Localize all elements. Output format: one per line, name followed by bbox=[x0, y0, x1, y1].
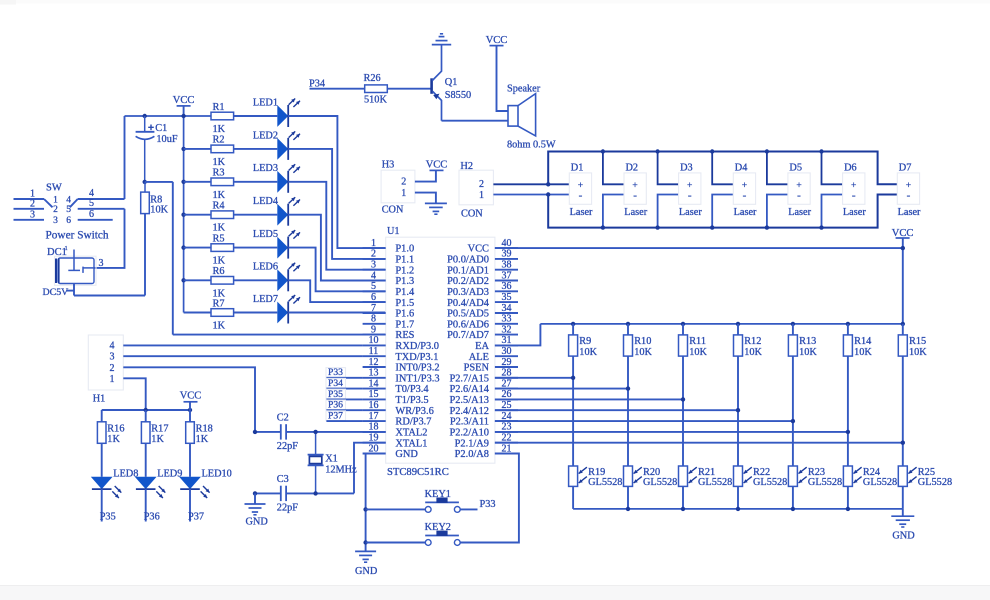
speaker LS1 bbox=[507, 83, 556, 150]
net label P35 bbox=[326, 389, 363, 400]
svg-text:6: 6 bbox=[66, 216, 71, 226]
photoresistor R20 GL5528 bbox=[624, 466, 678, 488]
wire R21 to bottom rail bbox=[682, 486, 684, 509]
svg-text:INT0/P3.2: INT0/P3.2 bbox=[395, 363, 439, 374]
wire D3 minus drop bbox=[658, 195, 679, 228]
svg-text:2: 2 bbox=[30, 199, 35, 210]
wire U1 VCC pin40 bbox=[495, 247, 903, 249]
svg-text:10uF: 10uF bbox=[156, 134, 177, 145]
wire R25 to bottom rail bbox=[902, 486, 904, 509]
junction bbox=[765, 225, 769, 229]
svg-text:D2: D2 bbox=[626, 162, 639, 173]
junction bbox=[253, 430, 257, 434]
wire U1 pin22 tap bbox=[495, 442, 903, 444]
svg-text:R5: R5 bbox=[213, 233, 225, 244]
svg-text:14: 14 bbox=[369, 378, 379, 389]
svg-text:R12: R12 bbox=[744, 336, 761, 347]
U1 pin 36 P0.3/AD3 bbox=[447, 281, 518, 298]
svg-text:R26: R26 bbox=[364, 73, 381, 84]
wire KEY2 to U1 P2.0 bbox=[460, 454, 519, 543]
wire D3 plus drop bbox=[658, 152, 679, 185]
svg-text:P34: P34 bbox=[328, 378, 343, 389]
wire D2 plus drop bbox=[603, 152, 624, 185]
junction bbox=[363, 507, 367, 511]
svg-text:-: - bbox=[797, 189, 801, 201]
resistor R11 10K bbox=[679, 324, 708, 358]
wire VCC vertical rail bbox=[183, 116, 185, 313]
svg-text:33: 33 bbox=[502, 314, 512, 325]
U1 pin 14 T0/P3.4 bbox=[363, 378, 430, 395]
svg-text:1: 1 bbox=[65, 245, 68, 252]
svg-text:XTAL1: XTAL1 bbox=[395, 438, 427, 449]
svg-text:2: 2 bbox=[479, 179, 484, 190]
wire D4 plus drop bbox=[712, 152, 733, 185]
svg-text:GND: GND bbox=[355, 566, 378, 577]
junction bbox=[188, 408, 192, 412]
junction RES node bbox=[143, 180, 147, 184]
svg-text:R11: R11 bbox=[689, 336, 706, 347]
junction bbox=[181, 147, 185, 151]
microcontroller U1 STC89C51RC bbox=[386, 226, 495, 478]
wire LED1 to U1 pin1 bbox=[288, 116, 386, 248]
svg-text:-: - bbox=[852, 189, 856, 201]
svg-text:INT1/P3.3: INT1/P3.3 bbox=[395, 373, 439, 384]
LED LED2 bbox=[234, 130, 300, 160]
svg-text:R9: R9 bbox=[579, 336, 591, 347]
svg-text:LED2: LED2 bbox=[253, 130, 278, 141]
wire D5 minus drop bbox=[767, 195, 788, 228]
LED LED3 bbox=[234, 163, 300, 193]
resistor R7 1K bbox=[184, 298, 234, 331]
wire Q1 emitter to speaker bbox=[442, 120, 509, 122]
junction bbox=[901, 322, 905, 326]
svg-text:32: 32 bbox=[502, 324, 512, 335]
svg-text:10K: 10K bbox=[579, 347, 597, 358]
svg-text:EA: EA bbox=[475, 341, 489, 352]
svg-text:3: 3 bbox=[371, 260, 376, 271]
svg-text:2: 2 bbox=[401, 177, 406, 188]
resistor R16 1K bbox=[97, 410, 124, 445]
resistor R26 510K bbox=[364, 73, 388, 106]
U1 pin 1 P1.0 bbox=[363, 238, 415, 255]
svg-text:LED5: LED5 bbox=[253, 229, 278, 240]
U1 pin 7 P1.6 bbox=[363, 303, 415, 320]
svg-text:1: 1 bbox=[401, 188, 406, 199]
switch SW bbox=[14, 183, 125, 227]
svg-text:P1.3: P1.3 bbox=[395, 276, 414, 287]
svg-text:1K: 1K bbox=[213, 256, 226, 267]
svg-text:R2: R2 bbox=[213, 135, 225, 146]
svg-text:VCC: VCC bbox=[486, 35, 508, 46]
wire photoresistor bottom rail bbox=[573, 508, 903, 510]
svg-text:7: 7 bbox=[371, 303, 376, 314]
svg-text:R1: R1 bbox=[213, 102, 225, 113]
svg-text:P0.0/AD0: P0.0/AD0 bbox=[447, 255, 489, 266]
wire R20 to bottom rail bbox=[627, 486, 629, 509]
U1 pin 21 P2.0/A8 bbox=[455, 443, 518, 460]
power port VCC at R18 bbox=[180, 391, 202, 410]
wire KEY2 left bbox=[366, 542, 426, 544]
svg-text:9: 9 bbox=[371, 324, 376, 335]
wire LED2 to U1 pin2 bbox=[288, 149, 386, 259]
svg-text:D6: D6 bbox=[844, 162, 857, 173]
resistor R2 1K bbox=[184, 135, 234, 168]
U1 pin 8 P1.7 bbox=[363, 314, 415, 331]
svg-text:8ohm 0.5W: 8ohm 0.5W bbox=[507, 140, 556, 151]
junction bbox=[819, 225, 823, 229]
svg-text:R13: R13 bbox=[799, 336, 816, 347]
svg-text:3: 3 bbox=[30, 210, 35, 221]
svg-text:GL5528: GL5528 bbox=[588, 477, 622, 488]
wire R19 to bottom rail bbox=[572, 486, 574, 509]
wire LED5 to U1 pin5 bbox=[288, 248, 386, 292]
LED LED4 bbox=[234, 196, 300, 226]
svg-text:10K: 10K bbox=[634, 347, 652, 358]
wire row1 VCC feed bbox=[125, 115, 212, 117]
junction bbox=[681, 322, 685, 326]
U1 pin 9 RES bbox=[363, 324, 415, 341]
svg-text:P37: P37 bbox=[188, 512, 204, 523]
svg-text:4: 4 bbox=[66, 195, 71, 205]
U1 pin 39 P0.0/AD0 bbox=[447, 249, 518, 266]
junction bbox=[791, 419, 795, 423]
svg-text:37: 37 bbox=[502, 270, 512, 281]
svg-text:Laser: Laser bbox=[679, 207, 702, 218]
svg-text:XTAL2: XTAL2 bbox=[395, 428, 427, 439]
junction bbox=[846, 430, 850, 434]
svg-text:GL5528: GL5528 bbox=[753, 477, 787, 488]
svg-text:10K: 10K bbox=[689, 347, 707, 358]
wire EA to pullup rail bbox=[495, 324, 541, 346]
svg-text:C3: C3 bbox=[277, 474, 289, 485]
svg-text:TXD/P3.1: TXD/P3.1 bbox=[395, 352, 438, 363]
wire LED6 to U1 pin6 bbox=[288, 280, 386, 302]
svg-text:H1: H1 bbox=[93, 394, 106, 405]
pushbutton KEY1 bbox=[425, 489, 461, 512]
photoresistor R25 GL5528 bbox=[898, 466, 952, 488]
resistor R13 10K bbox=[788, 324, 817, 358]
svg-text:RD/P3.7: RD/P3.7 bbox=[395, 417, 431, 428]
wire U1 GND pin to ground bbox=[365, 454, 367, 552]
connector DC1 bbox=[47, 245, 104, 285]
LED LED9 bbox=[135, 443, 183, 498]
laser module D3 bbox=[679, 162, 703, 218]
junction bbox=[846, 507, 850, 511]
ground at crystal bbox=[245, 493, 269, 527]
ground above Q1 bbox=[432, 34, 451, 63]
svg-text:T0/P3.4: T0/P3.4 bbox=[395, 384, 429, 395]
U1 pin 17 RD/P3.7 bbox=[363, 411, 432, 428]
wire U1 pin26 tap bbox=[495, 398, 683, 400]
U1 pin 3 P1.2 bbox=[363, 260, 415, 277]
svg-text:39: 39 bbox=[502, 249, 512, 260]
junction bbox=[313, 430, 317, 434]
svg-text:P2.4/A12: P2.4/A12 bbox=[449, 406, 489, 417]
svg-text:29: 29 bbox=[502, 357, 512, 368]
svg-text:D4: D4 bbox=[735, 162, 748, 173]
svg-text:P0.3/AD3: P0.3/AD3 bbox=[447, 287, 489, 298]
resistor R6 1K bbox=[184, 266, 234, 299]
U1 pin 27 P2.6/A14 bbox=[449, 378, 518, 395]
wire SW pin4 to VCC row bbox=[124, 116, 126, 199]
wire D6 minus drop bbox=[822, 195, 843, 228]
svg-text:15: 15 bbox=[369, 389, 379, 400]
junction bbox=[901, 441, 905, 445]
svg-text:VCC: VCC bbox=[426, 159, 448, 170]
svg-text:Laser: Laser bbox=[788, 207, 811, 218]
svg-text:P36: P36 bbox=[328, 400, 343, 411]
svg-text:R15: R15 bbox=[909, 336, 926, 347]
capacitor C1 10uF bbox=[136, 116, 178, 182]
net label P37 bbox=[326, 411, 363, 422]
svg-text:16: 16 bbox=[369, 400, 379, 411]
junction bbox=[710, 225, 714, 229]
junction bbox=[571, 376, 575, 380]
svg-text:P1.1: P1.1 bbox=[395, 255, 414, 266]
svg-text:Speaker: Speaker bbox=[507, 83, 541, 94]
svg-text:GL5528: GL5528 bbox=[863, 477, 897, 488]
wire H3 pin1 to ground bbox=[415, 193, 436, 203]
U1 pin 33 P0.6/AD6 bbox=[447, 314, 518, 331]
svg-text:LED8: LED8 bbox=[113, 468, 138, 479]
LED LED7 bbox=[234, 294, 300, 324]
svg-text:8: 8 bbox=[371, 314, 376, 325]
svg-text:DC5V: DC5V bbox=[43, 287, 70, 298]
U1 pin 11 TXD/P3.1 bbox=[363, 346, 439, 363]
svg-text:12MHz: 12MHz bbox=[325, 465, 357, 476]
wire R12 to R22 bbox=[737, 356, 739, 466]
svg-text:6: 6 bbox=[371, 292, 376, 303]
U1 pin 26 P2.5/A13 bbox=[449, 389, 518, 406]
wire DC1 minus to R8 bottom bbox=[67, 214, 146, 296]
wire R22 to bottom rail bbox=[737, 486, 739, 509]
net label P36 bbox=[144, 489, 160, 522]
net label P37 bbox=[188, 489, 204, 522]
U1 pin 34 P0.5/AD5 bbox=[447, 303, 518, 320]
svg-text:-: - bbox=[579, 189, 583, 201]
LED LED5 bbox=[234, 229, 300, 259]
wire D2 minus drop bbox=[603, 195, 624, 228]
wire H2 pin2 to laser plus bbox=[493, 183, 569, 185]
wire H1 pin3 to U1 TXD bbox=[123, 355, 362, 357]
svg-text:ALE: ALE bbox=[469, 352, 489, 363]
svg-text:LED6: LED6 bbox=[253, 262, 278, 273]
U1 pin 31 EA bbox=[475, 335, 518, 352]
wire RES node to U1 pin9 bbox=[145, 182, 386, 335]
junction laser plus bbox=[546, 182, 550, 186]
svg-text:R14: R14 bbox=[854, 336, 871, 347]
svg-text:35: 35 bbox=[502, 292, 512, 303]
wire laser top rail bbox=[548, 152, 897, 185]
svg-text:5: 5 bbox=[89, 198, 94, 209]
U1 pin 16 WR/P3.6 bbox=[363, 400, 434, 417]
wire H1 pin1 to LED rail bbox=[123, 378, 145, 410]
wire KEY1 left bbox=[366, 508, 426, 510]
junction bbox=[710, 149, 714, 153]
svg-text:P37: P37 bbox=[328, 411, 343, 422]
laser module D7 bbox=[897, 162, 921, 218]
U1 pin 35 P0.4/AD4 bbox=[447, 292, 518, 309]
junction bbox=[655, 149, 659, 153]
svg-text:P35: P35 bbox=[100, 512, 116, 523]
ground at H3 bbox=[425, 202, 447, 204]
crystal X1 12MHz bbox=[308, 432, 357, 494]
svg-text:T1/P3.5: T1/P3.5 bbox=[395, 395, 428, 406]
wire LED7 to U1 pin7 bbox=[288, 312, 386, 314]
svg-text:SW: SW bbox=[46, 183, 62, 194]
svg-text:4: 4 bbox=[371, 270, 376, 281]
svg-text:P2.6/A14: P2.6/A14 bbox=[449, 384, 489, 395]
svg-text:R7: R7 bbox=[213, 298, 225, 309]
U1 pin 28 P2.7/A15 bbox=[449, 368, 518, 385]
wire D5 plus drop bbox=[767, 152, 788, 185]
svg-text:VCC: VCC bbox=[468, 244, 489, 255]
wire LED3 to U1 pin3 bbox=[288, 182, 386, 270]
svg-text:P1.2: P1.2 bbox=[395, 265, 414, 276]
photoresistor R22 GL5528 bbox=[734, 466, 788, 488]
wire R24 to bottom rail bbox=[847, 486, 849, 509]
svg-text:Laser: Laser bbox=[624, 207, 647, 218]
junction bbox=[181, 278, 185, 282]
connector H2 bbox=[459, 161, 493, 220]
U1 pin 10 RXD/P3.0 bbox=[363, 335, 439, 352]
svg-text:-: - bbox=[633, 189, 637, 201]
resistor R9 10K bbox=[569, 324, 598, 358]
junction bbox=[601, 149, 605, 153]
laser module D6 bbox=[843, 162, 867, 218]
resistor R14 10K bbox=[843, 324, 872, 358]
wire P34 to R26 bbox=[310, 88, 365, 90]
U1 pin 30 ALE bbox=[469, 346, 518, 363]
wire H1 pin4 to U1 RXD bbox=[123, 344, 362, 346]
svg-text:1: 1 bbox=[371, 238, 376, 249]
junction bbox=[681, 397, 685, 401]
U1 pin 18 XTAL2 bbox=[363, 422, 428, 439]
svg-text:D1: D1 bbox=[571, 162, 584, 173]
net label P33 bbox=[326, 367, 363, 378]
wire H2 pin1 to laser minus bbox=[493, 194, 569, 196]
svg-text:P1.6: P1.6 bbox=[395, 309, 414, 320]
wire U1 pin25 tap bbox=[495, 409, 738, 411]
junction bbox=[626, 322, 630, 326]
junction bbox=[791, 322, 795, 326]
U1 pin 15 T1/P3.5 bbox=[363, 389, 429, 406]
wire H3 pin2 to VCC bbox=[415, 171, 436, 182]
ground below keys bbox=[355, 551, 378, 577]
svg-text:10K: 10K bbox=[150, 204, 168, 215]
svg-text:P2.1/A9: P2.1/A9 bbox=[455, 438, 489, 449]
svg-text:CON: CON bbox=[382, 204, 404, 215]
svg-text:1K: 1K bbox=[213, 124, 226, 135]
svg-text:38: 38 bbox=[502, 260, 512, 271]
LED LED1 bbox=[234, 97, 300, 127]
svg-text:Laser: Laser bbox=[898, 207, 921, 218]
wire D4 minus drop bbox=[712, 195, 733, 228]
svg-text:34: 34 bbox=[502, 303, 512, 314]
svg-text:LED3: LED3 bbox=[253, 163, 278, 174]
svg-text:3: 3 bbox=[99, 258, 104, 269]
svg-text:GND: GND bbox=[892, 531, 915, 542]
svg-text:1K: 1K bbox=[107, 434, 120, 445]
svg-text:1: 1 bbox=[53, 195, 58, 205]
svg-text:17: 17 bbox=[369, 411, 379, 422]
net label P35 bbox=[100, 489, 116, 522]
wire SW pin5 to DC1 pin3 bbox=[94, 209, 125, 268]
svg-text:STC89C51RC: STC89C51RC bbox=[387, 467, 449, 478]
svg-text:LED9: LED9 bbox=[157, 468, 182, 479]
svg-text:5: 5 bbox=[371, 281, 376, 292]
wire U1 pin28 tap bbox=[495, 377, 573, 379]
svg-text:CON: CON bbox=[461, 209, 483, 220]
wire R15 to R25 bbox=[902, 356, 904, 466]
wire pullup rail bbox=[540, 323, 902, 325]
svg-text:22pF: 22pF bbox=[277, 503, 298, 514]
resistor R18 1K bbox=[186, 410, 213, 445]
U1 pin 24 P2.3/A11 bbox=[450, 411, 518, 428]
svg-text:R3: R3 bbox=[213, 168, 225, 179]
svg-text:2: 2 bbox=[53, 205, 58, 215]
svg-text:Power Switch: Power Switch bbox=[46, 230, 109, 242]
laser module D4 bbox=[733, 162, 757, 218]
resistor R5 1K bbox=[184, 233, 234, 266]
junction bbox=[181, 114, 185, 118]
U1 pin 23 P2.2/A10 bbox=[449, 422, 518, 439]
svg-text:36: 36 bbox=[502, 281, 512, 292]
junction bbox=[601, 225, 605, 229]
laser module D2 bbox=[624, 162, 648, 218]
U1 pin 37 P0.2/AD2 bbox=[447, 270, 518, 287]
svg-text:GL5528: GL5528 bbox=[918, 477, 952, 488]
svg-text:10: 10 bbox=[369, 335, 379, 346]
svg-text:1: 1 bbox=[479, 190, 484, 201]
wire R14 to R24 bbox=[847, 356, 849, 466]
laser module D1 bbox=[569, 162, 593, 218]
svg-text:U1: U1 bbox=[387, 226, 400, 237]
svg-text:C2: C2 bbox=[277, 412, 289, 423]
U1 pin 13 INT1/P3.3 bbox=[363, 368, 440, 385]
wire R11 to R21 bbox=[682, 356, 684, 466]
resistor R4 1K bbox=[184, 201, 234, 234]
junction bbox=[681, 507, 685, 511]
svg-text:1K: 1K bbox=[213, 321, 226, 332]
svg-text:-: - bbox=[743, 189, 747, 201]
U1 pin 22 P2.1/A9 bbox=[455, 433, 518, 450]
U1 pin 5 P1.4 bbox=[363, 281, 415, 298]
svg-text:P33: P33 bbox=[480, 499, 496, 510]
svg-text:P0.2/AD2: P0.2/AD2 bbox=[447, 276, 489, 287]
svg-text:LED10: LED10 bbox=[202, 468, 232, 479]
svg-text:P0.1/AD1: P0.1/AD1 bbox=[447, 265, 489, 276]
svg-text:22pF: 22pF bbox=[277, 441, 298, 452]
wire R26 to Q1 base bbox=[387, 88, 431, 90]
svg-text:P2.2/A10: P2.2/A10 bbox=[449, 428, 489, 439]
svg-text:H3: H3 bbox=[382, 160, 395, 171]
svg-text:GL5528: GL5528 bbox=[698, 477, 732, 488]
photoresistor R23 GL5528 bbox=[788, 466, 842, 488]
svg-text:R6: R6 bbox=[213, 266, 225, 277]
wire U1 pin24 tap bbox=[495, 420, 793, 422]
net label P36 bbox=[326, 400, 363, 411]
svg-text:D7: D7 bbox=[899, 162, 912, 173]
ground bottom right bbox=[891, 509, 915, 542]
svg-text:R10: R10 bbox=[634, 336, 651, 347]
svg-text:LED1: LED1 bbox=[253, 97, 278, 108]
wire C3 to U1 XTAL1 bbox=[354, 443, 386, 494]
svg-text:2: 2 bbox=[110, 363, 115, 374]
svg-text:20: 20 bbox=[369, 443, 379, 454]
svg-text:VCC: VCC bbox=[180, 391, 202, 402]
connector H1 bbox=[88, 335, 123, 405]
